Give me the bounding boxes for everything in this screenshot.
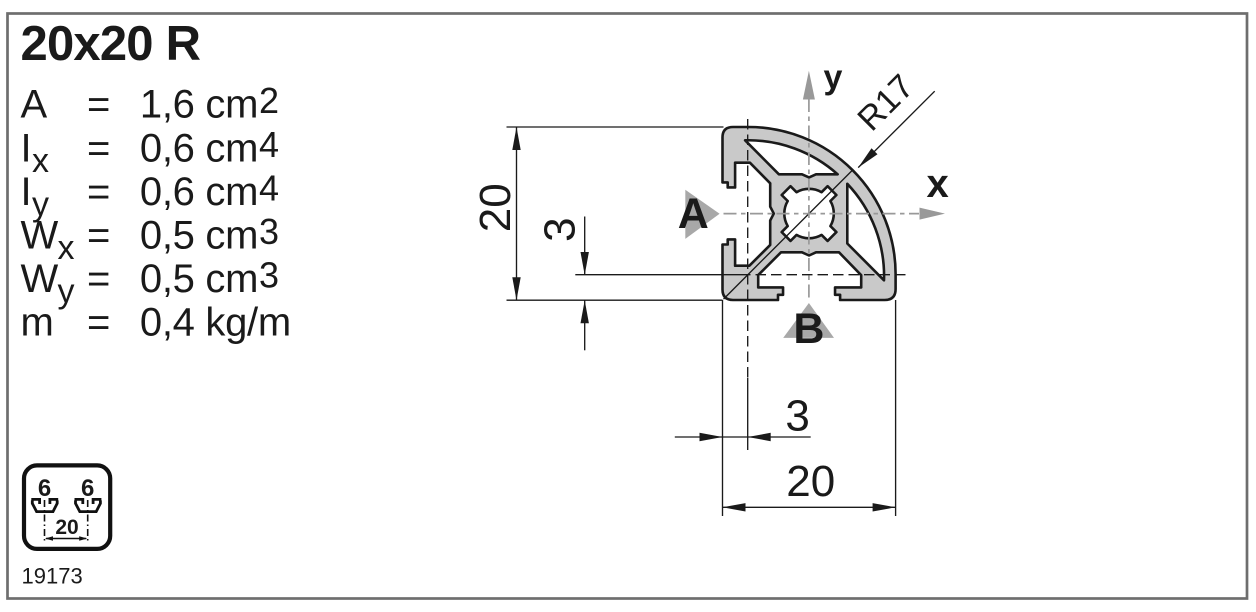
svg-text:m: m (21, 301, 54, 345)
svg-text:=: = (87, 257, 110, 301)
x axis dashed gray (724, 213, 920, 215)
svg-text:x: x (927, 162, 949, 206)
icon centerlines (44, 500, 46, 543)
3 horizontal dim arrows (700, 433, 723, 441)
A section marker triangle (685, 190, 719, 239)
20 horizontal dim line (723, 506, 896, 508)
svg-text:3: 3 (785, 392, 809, 441)
20 horizontal dim arrows (723, 503, 746, 511)
svg-text:2: 2 (259, 80, 279, 121)
svg-text:0,6 cm: 0,6 cm (140, 170, 258, 214)
svg-text:0,5 cm: 0,5 cm (140, 257, 258, 301)
svg-text:3: 3 (259, 255, 279, 296)
20 vertical dim arrows (512, 127, 520, 150)
y axis dashed gray (808, 99, 810, 302)
svg-text:3: 3 (535, 217, 584, 241)
svg-text:20: 20 (55, 516, 78, 539)
svg-text:x: x (32, 142, 49, 180)
3 vertical dim arrows (581, 252, 589, 275)
svg-text:I: I (21, 170, 32, 214)
R17 arrowhead (858, 148, 877, 167)
profile cross-section body (723, 127, 896, 300)
icon arrow line (46, 538, 86, 540)
3 vertical dim line lower (584, 300, 586, 350)
extension line for 3-dim (solid part) (575, 274, 740, 276)
svg-text:6: 6 (38, 475, 51, 502)
svg-text:=: = (87, 83, 110, 127)
svg-text:x: x (58, 229, 75, 267)
icon slot symbol left (31, 499, 101, 511)
icon slot symbol right (75, 499, 102, 511)
R17 radius diagonal line through profile (724, 170, 853, 299)
svg-text:y: y (58, 273, 75, 311)
svg-text:W: W (21, 257, 59, 301)
20 vertical dim: bottom extension line (507, 299, 723, 301)
svg-text:I: I (21, 126, 32, 170)
svg-text:A: A (678, 190, 709, 238)
svg-text:4: 4 (259, 167, 279, 208)
svg-text:0,4 kg/m: 0,4 kg/m (140, 301, 291, 345)
svg-text:=: = (87, 214, 110, 258)
svg-text:y: y (824, 59, 843, 97)
20 vertical dim line (516, 127, 518, 300)
svg-text:A: A (21, 83, 48, 127)
right face extension line down (895, 300, 897, 516)
svg-text:20: 20 (471, 183, 520, 232)
svg-text:0,6 cm: 0,6 cm (140, 126, 258, 170)
y axis arrow (803, 71, 815, 100)
svg-text:B: B (793, 305, 824, 353)
left face extension line down (722, 300, 724, 516)
svg-text:20: 20 (786, 457, 835, 506)
slot depth dashed line vertical x=747.7 (747, 119, 749, 378)
slot depth dashed line horizontal y=274.7 (740, 274, 908, 276)
svg-text:19173: 19173 (22, 564, 83, 589)
slot icon box (24, 465, 110, 549)
svg-text:0,5 cm: 0,5 cm (140, 214, 258, 258)
property row A (21, 80, 291, 345)
svg-text:W: W (21, 214, 59, 258)
B section marker triangle (783, 303, 834, 338)
svg-text:1,6 cm: 1,6 cm (140, 83, 258, 127)
svg-text:=: = (87, 170, 110, 214)
svg-text:4: 4 (259, 124, 279, 165)
svg-text:3: 3 (259, 211, 279, 252)
3 horizontal dim line (675, 436, 811, 438)
svg-text:20x20 R: 20x20 R (21, 17, 201, 71)
svg-text:=: = (87, 301, 110, 345)
3 vertical dim line upper (584, 217, 586, 276)
R17 pointer line (858, 91, 935, 167)
x axis arrow (920, 208, 946, 220)
svg-text:6: 6 (81, 475, 94, 502)
svg-text:=: = (87, 126, 110, 170)
20 vertical dim: top extension line (507, 126, 724, 128)
